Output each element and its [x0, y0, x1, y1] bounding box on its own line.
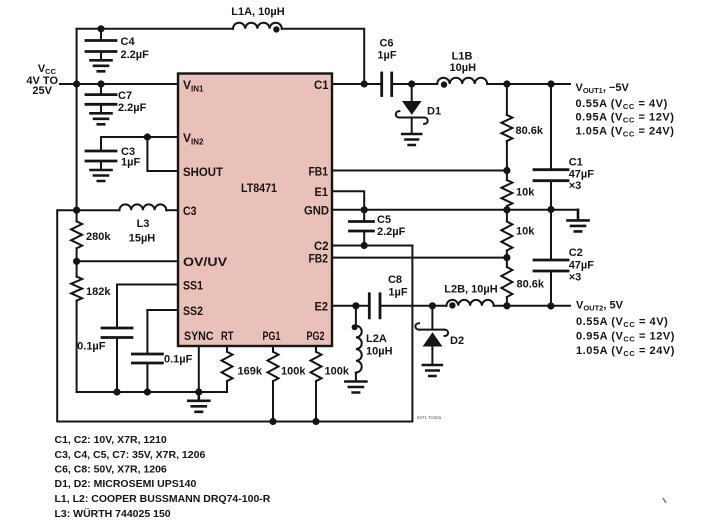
svg-text:25V: 25V — [32, 85, 52, 97]
wire left loop: L3 node to far-left down to bottom rail 2 — [57, 210, 412, 421]
node: C1 top / VOUT1 junction — [547, 80, 554, 87]
node: L1B phase dot — [441, 81, 447, 87]
ground under C4 — [91, 60, 112, 71]
svg-text:0.1µF: 0.1µF — [164, 354, 193, 366]
node: PG2 on rail 2 — [312, 418, 319, 425]
node: OV/UV divider junction — [73, 258, 80, 265]
ground under C3 — [91, 170, 112, 181]
wire C8 to L2B — [380, 305, 447, 307]
svg-text:C7: C7 — [118, 90, 132, 102]
svg-text:C2: C2 — [569, 247, 583, 259]
node: L1A phase dot — [273, 26, 279, 32]
ground under D1 — [402, 134, 421, 145]
svg-text:L1A, 10µH: L1A, 10µH — [231, 6, 284, 18]
svg-text:2.2µF: 2.2µF — [377, 226, 406, 238]
node: SS1 cap on rail — [113, 388, 120, 395]
capacitor C7 — [86, 84, 116, 113]
node: SYNC ground junction — [195, 388, 202, 395]
svg-text:SHOUT: SHOUT — [183, 165, 224, 179]
svg-text:L3: WÜRTH 744025 150: L3: WÜRTH 744025 150 — [55, 507, 171, 520]
svg-text:169k: 169k — [238, 366, 263, 378]
resistor 10k lower — [501, 210, 512, 258]
wire OV/UV line — [77, 260, 178, 262]
svg-text:E2: E2 — [315, 300, 329, 314]
resistor RT 169k — [222, 346, 233, 392]
op-amp-IC LT8471 body — [178, 74, 332, 347]
node: FB2 junction — [503, 254, 510, 261]
svg-text:×3: ×3 — [569, 272, 582, 284]
svg-text:1µF: 1µF — [388, 287, 407, 299]
svg-text:L1, L2: COOPER BUSSMANN DRQ74-: L1, L2: COOPER BUSSMANN DRQ74-100-R — [55, 493, 271, 505]
inductor L3 — [120, 204, 167, 210]
svg-text:VOUT2, 5V: VOUT2, 5V — [576, 300, 624, 313]
node: C4 top junction — [97, 25, 104, 32]
wire E1 line to GND line — [332, 191, 364, 210]
svg-text:1µF: 1µF — [377, 50, 396, 62]
svg-text:0.95A (VCC = 12V): 0.95A (VCC = 12V) — [576, 331, 675, 344]
svg-text:RT: RT — [221, 329, 234, 343]
svg-text:FB2: FB2 — [309, 252, 329, 266]
svg-text:×3: ×3 — [569, 180, 582, 192]
node: L2A/E2 junction — [352, 302, 359, 309]
svg-text:C1: C1 — [314, 78, 329, 92]
node: VCC junction — [73, 80, 80, 87]
svg-text:C1, C2: 10V, X7R, 1210: C1, C2: 10V, X7R, 1210 — [55, 434, 167, 446]
wire VCC input stub to VIN1 — [60, 83, 178, 85]
capacitor 0.1uF on SS2 — [132, 310, 162, 392]
svg-text:2.2µF: 2.2µF — [121, 49, 150, 61]
svg-text:C1: C1 — [569, 157, 583, 169]
svg-text:L2A: L2A — [366, 333, 387, 345]
capacitor 0.1uF on SS1 — [102, 285, 132, 393]
svg-text:C6: C6 — [379, 38, 393, 50]
wire top rail right segment, down to C1 pin line — [282, 29, 364, 84]
capacitor C3 — [86, 137, 116, 170]
svg-text:L1B: L1B — [452, 51, 473, 63]
node: L3 junction — [73, 207, 80, 214]
svg-text:D1: D1 — [427, 106, 441, 118]
wire ground rail 1 — [77, 391, 227, 393]
inductor L1A — [233, 23, 282, 29]
capacitor C8 (series) — [369, 294, 380, 318]
node: L1B to 80.6k junction — [503, 80, 510, 87]
wire VIN2 line — [101, 136, 178, 138]
svg-text:1.05A (VCC = 24V): 1.05A (VCC = 24V) — [576, 345, 675, 358]
wire GND line — [332, 209, 578, 211]
wire L3 to C3 pin — [166, 209, 178, 211]
svg-text:80.6k: 80.6k — [517, 279, 545, 291]
notes text block — [55, 434, 271, 520]
wire SYNC to ground rail — [198, 346, 200, 392]
svg-text:1µF: 1µF — [121, 157, 140, 169]
node: VIN2/SHOUT junction — [144, 133, 151, 140]
wire C2 pin line — [332, 245, 412, 247]
svg-text:47µF: 47µF — [569, 169, 595, 181]
svg-text:182k: 182k — [86, 286, 111, 298]
svg-text:10k: 10k — [516, 187, 535, 199]
inductor L2A vertical — [356, 306, 362, 382]
capacitor C2 output — [534, 210, 568, 307]
node: C2 bottom / VOUT2 junction — [547, 302, 554, 309]
node: C7 junction — [97, 80, 104, 87]
diode D2 — [415, 306, 448, 365]
svg-text:0.1µF: 0.1µF — [77, 341, 106, 353]
svg-text:80.6k: 80.6k — [516, 125, 544, 137]
resistor 182k — [71, 261, 82, 392]
diode D1 — [396, 84, 428, 134]
node: E1/GND junction — [361, 206, 368, 213]
svg-text:C6, C8: 50V, X7R, 1206: C6, C8: 50V, X7R, 1206 — [55, 464, 167, 476]
svg-text:OV/UV: OV/UV — [183, 255, 227, 269]
ground under L2A — [345, 382, 366, 393]
node: C1/C2 ground junction — [547, 206, 554, 213]
svg-text:D1, D2: MICROSEMI UPS140: D1, D2: MICROSEMI UPS140 — [55, 478, 197, 490]
node: L2A phase dot — [352, 324, 358, 330]
ground under D2 — [423, 365, 442, 376]
svg-text:10µH: 10µH — [450, 62, 477, 74]
capacitor C1 output — [534, 84, 568, 210]
wire SS1 line — [117, 284, 178, 286]
wire C6 to L1B — [392, 83, 438, 85]
svg-text:10k: 10k — [516, 226, 535, 238]
svg-text:C8: C8 — [388, 274, 402, 286]
svg-text:D2: D2 — [450, 335, 464, 347]
svg-text:C5: C5 — [377, 214, 391, 226]
node: 10k/10k GND junction — [503, 206, 510, 213]
svg-text:LT8471: LT8471 — [241, 181, 277, 195]
svg-text:L2B, 10µH: L2B, 10µH — [444, 284, 497, 296]
svg-text:15µH: 15µH — [129, 233, 156, 245]
svg-text:47µF: 47µF — [569, 260, 595, 272]
node: top rail joins C1 line — [361, 80, 368, 87]
svg-text:SS2: SS2 — [183, 304, 203, 318]
svg-text:C4: C4 — [121, 36, 136, 48]
wire SHOUT link from VIN2 node — [147, 137, 178, 171]
svg-text:280k: 280k — [86, 231, 111, 243]
svg-text:E1: E1 — [315, 185, 329, 199]
resistor 10k upper — [501, 171, 512, 210]
wire L2B to VOUT2 — [494, 305, 570, 307]
node: FB1/10k junction — [503, 167, 510, 174]
wire FB2 line — [332, 257, 507, 259]
ground on GND line right — [568, 210, 589, 232]
ground at SYNC rail — [188, 392, 209, 412]
resistor 280k — [71, 210, 82, 261]
capacitor C6 (series) — [382, 73, 392, 96]
wire C1 pin line — [332, 83, 382, 85]
svg-text:100k: 100k — [325, 366, 350, 378]
ground under C7 — [91, 113, 112, 124]
capacitor C5 — [350, 210, 374, 246]
resistor PG1 100k — [268, 346, 279, 422]
svg-text:8471 TA02a: 8471 TA02a — [417, 415, 442, 420]
stray mark — [663, 498, 666, 503]
svg-text:L3: L3 — [137, 218, 150, 230]
svg-text:100k: 100k — [281, 366, 306, 378]
wire FB1 line — [332, 170, 507, 172]
wire L1B to VOUT1 — [487, 83, 570, 85]
node: C5 bottom / C2 pin junction — [361, 242, 368, 249]
svg-text:GND: GND — [304, 204, 329, 218]
svg-text:0.55A (VCC = 4V): 0.55A (VCC = 4V) — [576, 316, 668, 329]
node: SS2 cap on rail — [144, 388, 151, 395]
capacitor C4 — [86, 29, 116, 61]
svg-text:C3, C4, C5, C7: 35V, X7R, 1206: C3, C4, C5, C7: 35V, X7R, 1206 — [55, 449, 206, 461]
svg-text:SS1: SS1 — [183, 279, 203, 293]
resistor PG2 100k — [311, 346, 322, 422]
svg-text:C3: C3 — [183, 204, 197, 218]
node: L2B phase dot — [449, 302, 455, 308]
node: 80.6k bottom / VOUT2 junction — [503, 302, 510, 309]
svg-text:FB1: FB1 — [309, 165, 329, 179]
wire VCC vertical — [76, 29, 78, 210]
svg-text:10µH: 10µH — [366, 346, 393, 358]
resistor 80.6k upper — [501, 84, 512, 171]
svg-text:SYNC: SYNC — [184, 329, 214, 343]
svg-text:PG1: PG1 — [263, 329, 281, 343]
wire C3-pin line left segment — [77, 209, 120, 211]
svg-text:0.55A (VCC = 4V): 0.55A (VCC = 4V) — [576, 98, 668, 111]
svg-text:2.2µF: 2.2µF — [118, 102, 147, 114]
inductor L2B — [447, 300, 494, 306]
node: D1 junction — [408, 80, 415, 87]
svg-text:1.05A (VCC = 24V): 1.05A (VCC = 24V) — [576, 126, 675, 139]
inductor L1B — [437, 78, 487, 84]
svg-text:0.95A (VCC = 12V): 0.95A (VCC = 12V) — [576, 112, 675, 125]
wire top rail from VCC vertical through L1A to C1 node — [77, 28, 233, 30]
node: PG1 on rail 2 — [269, 418, 276, 425]
svg-text:VOUT1, −5V: VOUT1, −5V — [576, 82, 630, 95]
node: D2 junction — [429, 302, 436, 309]
wire SS2 line — [147, 309, 178, 311]
wire E2 line — [332, 305, 369, 307]
svg-text:PG2: PG2 — [307, 329, 325, 343]
resistor 80.6k lower — [501, 258, 512, 306]
